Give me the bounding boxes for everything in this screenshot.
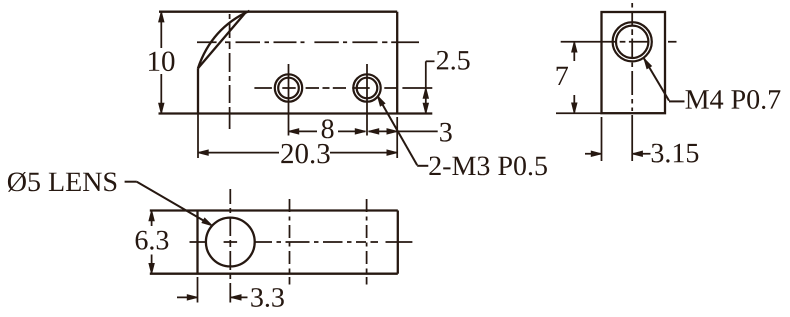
dimension 8 [289,130,366,132]
dimension 6.3 [151,211,153,274]
label 3 [440,123,452,142]
label 6.3 [136,231,169,250]
front view outline [159,11,433,114]
leader Ø5 LENS [125,182,209,224]
centerline M4 horizontal [561,41,677,43]
leader 2-M3 P0.5 [378,96,429,166]
hole M4 [613,22,652,61]
dimension 10 [160,12,162,114]
label O5 LENS [8,172,116,192]
hole M3 #1 [275,74,302,101]
wire left edge [197,68,199,113]
centerline M4 axis horizontal [197,41,419,43]
label 8 [322,119,334,138]
centerline M4 vertical [631,3,633,111]
lens arc [198,11,250,68]
dimension 2.5 [426,61,435,113]
centerline horizontal (bottom view) [190,241,413,243]
hole M3 #2 [353,74,380,101]
centerline lens vertical [229,14,231,129]
wire bottom edge [159,112,433,114]
centerline hole1 (bottom view) [289,197,291,285]
wire right edge [396,12,398,114]
right view outline [602,12,666,113]
centerline hole1 vertical [288,64,290,136]
label 2-M3 P0.5 [429,156,547,175]
centerline hole2 vertical [366,64,368,136]
label 3.3 [251,288,284,307]
leader M4 P0.7 [644,59,685,102]
bottom view outline [150,211,398,274]
label 3.15 [652,144,699,163]
label 2.5 [437,51,470,70]
chamfer edge [198,12,246,68]
wire top edge [159,11,397,13]
lens hole circle [206,218,255,267]
centerline lens vertical (bottom view) [229,189,231,303]
centerline hole2 (bottom view) [366,197,368,285]
centerline holes horizontal [254,87,432,89]
centerline M4 vertical extension below [631,115,633,161]
dimension 3.15 [585,117,651,161]
label 7 [557,67,568,85]
dimension 20.3 [198,114,397,159]
label 20.3 [281,144,329,164]
label M4 P0.7 [686,90,781,109]
label 10 [149,52,174,72]
dimension 3 [369,130,438,132]
dimension 7 [556,42,602,113]
dimension 3.3 [177,277,248,303]
